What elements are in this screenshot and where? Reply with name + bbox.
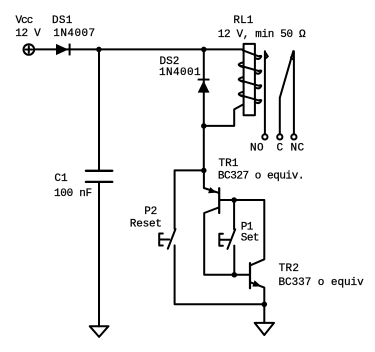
- svg-text:1N4007: 1N4007: [53, 28, 95, 40]
- svg-text:NC: NC: [291, 142, 305, 154]
- diode DS1: [56, 44, 68, 55]
- svg-text:TR2: TR2: [279, 263, 300, 275]
- svg-text:C1: C1: [54, 173, 68, 185]
- svg-text:RL1: RL1: [233, 15, 253, 27]
- wire TR1 collector to TR2 base: [204, 208, 249, 275]
- arrow TR1 emitter (PNP): [208, 187, 217, 193]
- transistor TR2 base bar: [249, 263, 251, 288]
- transistor TR1 base bar: [218, 188, 220, 213]
- pushbutton P1: [228, 229, 236, 249]
- terminal Vcc: [24, 44, 35, 55]
- relay coil turn 3: [239, 77, 262, 88]
- wire P1 top: [233, 200, 235, 229]
- svg-text:12 V, min 50 Ω: 12 V, min 50 Ω: [218, 29, 306, 41]
- wire C1 bottom to ground: [98, 183, 100, 327]
- diode DS2: [198, 81, 210, 93]
- wire C1 branch down: [98, 49, 100, 169]
- svg-text:C: C: [277, 142, 284, 154]
- svg-text:P2: P2: [144, 206, 157, 218]
- svg-text:Vcc: Vcc: [16, 15, 33, 27]
- junction node TR2 base / P1: [232, 272, 238, 278]
- wire P1 bottom: [233, 246, 235, 275]
- pin C: [277, 134, 282, 139]
- junction node rail-DS2: [201, 47, 207, 53]
- relay coil turn 1: [243, 50, 261, 59]
- svg-text:DS2: DS2: [160, 56, 180, 68]
- relay contact NO: [265, 51, 268, 134]
- wire relay coil bottom return: [204, 104, 244, 126]
- wire TR2 emitter to ground: [251, 282, 265, 323]
- svg-text:1N4001: 1N4001: [159, 67, 201, 79]
- svg-text:DS1: DS1: [52, 15, 73, 27]
- svg-text:BC337 o equiv: BC337 o equiv: [279, 277, 365, 289]
- relay armature C: [280, 51, 294, 134]
- relay coil turn 4: [239, 92, 262, 103]
- wire P2 bottom to ground rail: [175, 245, 265, 304]
- wire DS2 branch vertical: [203, 49, 205, 170]
- junction node coil bottom: [201, 123, 207, 128]
- svg-text:Reset: Reset: [130, 219, 162, 231]
- pin NC: [291, 134, 296, 139]
- svg-text:100 nF: 100 nF: [54, 188, 92, 200]
- svg-text:12 V: 12 V: [15, 28, 41, 40]
- relay contact NC: [291, 51, 294, 134]
- svg-text:Set: Set: [241, 233, 259, 245]
- capacitor C1: [86, 171, 112, 182]
- pushbutton P2: [168, 229, 176, 249]
- wire top rail Vcc to relay coil: [34, 48, 243, 50]
- ground (TR2): [255, 323, 274, 335]
- relay coil turn 2: [239, 62, 262, 73]
- svg-text:TR1: TR1: [219, 158, 239, 170]
- junction node TR1 emitter / P2: [201, 168, 207, 174]
- relay RL1 coil core: [244, 44, 255, 115]
- junction node rail-C1: [96, 47, 102, 53]
- pin NO: [262, 134, 267, 139]
- junction node TR1 base / P1: [231, 197, 237, 203]
- arrow TR2 emitter (NPN): [252, 280, 261, 286]
- wire left branch to P2: [175, 170, 204, 229]
- wire TR1 emitter lead: [204, 170, 219, 192]
- ground (C1): [90, 326, 109, 337]
- wire TR1 base to TR2 collector: [219, 200, 264, 265]
- svg-text:BC327 o equiv.: BC327 o equiv.: [218, 171, 304, 183]
- svg-text:NO: NO: [250, 142, 264, 154]
- junction node ground rail: [262, 302, 268, 308]
